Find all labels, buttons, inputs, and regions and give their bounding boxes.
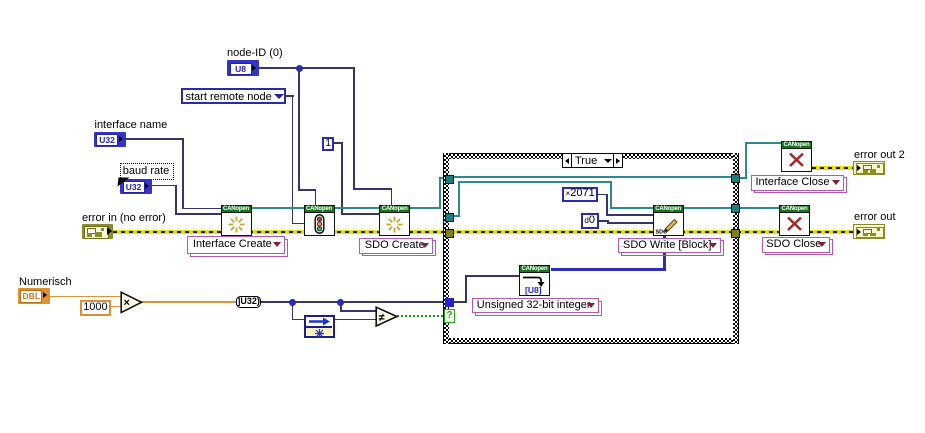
label interface name <box>95 120 168 131</box>
not-equal node <box>375 306 399 328</box>
wire teal into left tunnel 1 <box>439 177 446 179</box>
wire teal vertical up to left tunnel <box>439 177 441 208</box>
wire node-ID branch to traffic light vertical <box>298 67 300 190</box>
wire teal into Interface Close <box>745 142 782 144</box>
wire baud rate into Interface Create <box>175 213 221 215</box>
feedback node <box>304 315 335 338</box>
wire baud rate vertical <box>175 185 177 215</box>
op SDO Create VI U3 <box>379 205 410 236</box>
wire into feedback node <box>292 319 305 321</box>
control U32 baud rate <box>120 179 152 195</box>
wire teal SDO Create out <box>410 207 441 209</box>
case selector terminal ? <box>444 309 455 323</box>
wire node-ID branch to SDO Create vertical <box>353 67 355 189</box>
wire teal SDO Write out to right tunnel 2 <box>683 207 731 209</box>
wire node-ID into traffic light top <box>315 189 317 205</box>
wire x2071 vertical <box>606 194 608 216</box>
constant 1000 <box>80 300 112 316</box>
wire teal vertical up to Interface Close <box>745 142 747 179</box>
wire boolean dotted to case selector <box>397 315 445 317</box>
wire U8 array vertical up to SDO Write <box>663 235 666 271</box>
wire constant 1 out <box>334 142 343 144</box>
wire U8 array out of conversion VI thick <box>551 268 666 271</box>
wire teal right tunnel 2 to SDO Close <box>739 207 780 209</box>
tunnel left blue U32 <box>445 298 454 307</box>
label baud rate with selection marquee <box>120 163 174 180</box>
wire x2071 out <box>598 194 608 196</box>
wire teal from left tunnel 2 <box>452 215 460 217</box>
wire into not-equal top input <box>340 310 377 312</box>
wire node-ID horizontal <box>258 67 355 69</box>
indicator error out 2 <box>853 161 885 176</box>
svg-text:[U8]: [U8] <box>525 285 542 295</box>
node junction dot 1 <box>289 299 296 306</box>
wire branch to not-equal vertical <box>340 301 342 311</box>
wire interface name vertical <box>182 138 184 209</box>
wire error out 2 from Interface Close <box>812 166 853 170</box>
wire blue into conversion VI <box>465 275 519 277</box>
wire blue inside case vertical up <box>465 275 467 303</box>
wire node-ID into SDO Create top <box>391 188 393 205</box>
wire teal vertical down to SDO Write <box>610 181 612 208</box>
case structure border right <box>733 153 739 344</box>
wire blue main U32 run <box>261 301 446 303</box>
wire x2071 into SDO Write <box>606 214 653 216</box>
wire teal run B across case <box>458 181 612 183</box>
constant d0 <box>581 213 599 229</box>
wire teal vertical up inside case <box>458 181 460 217</box>
case structure border bottom <box>443 338 739 344</box>
svg-text:≠: ≠ <box>378 312 384 324</box>
svg-text:×: × <box>124 297 130 309</box>
wire interface name out <box>126 138 184 140</box>
label Interface Create <box>0 0 1 1</box>
label SDO Close <box>0 0 1 1</box>
label SDO Write [Block] <box>0 0 1 1</box>
indicator error out <box>853 224 885 239</box>
wire branch to feedback node vertical <box>292 301 294 319</box>
control error in cluster <box>82 224 113 240</box>
constant 1 <box>322 137 335 151</box>
op NMT traffic light VI U2 <box>304 205 335 236</box>
wire interface name into Interface Create <box>182 208 221 210</box>
case structure border top <box>443 153 739 159</box>
tunnel left teal 1 interface ref <box>445 175 454 184</box>
wire teal run A across case <box>452 176 732 178</box>
multiply node <box>120 291 144 314</box>
label error out <box>854 212 896 223</box>
op SDO Write Block VI U4 <box>653 205 684 236</box>
tunnel right olive error <box>731 229 740 238</box>
wire node-ID to SDO Create horizontal <box>353 188 392 190</box>
case structure border left <box>443 153 449 344</box>
label Numerisch <box>19 277 72 288</box>
control DBL Numerisch <box>18 288 50 304</box>
tunnel left olive error <box>445 229 454 238</box>
label error in (no error) <box>82 213 166 224</box>
label error out 2 <box>854 150 905 161</box>
wire teal Interface Create to SDO Create <box>251 207 380 209</box>
op Interface Create VI U1 <box>221 205 252 236</box>
wire orange DBL out <box>50 296 122 298</box>
label Interface Close <box>0 0 1 1</box>
wire blue inside case from tunnel <box>453 301 467 303</box>
wire d0 out <box>598 220 609 222</box>
wire baud rate out <box>152 185 177 187</box>
enum constant start remote node <box>181 88 286 104</box>
tunnel right teal 1 <box>731 174 740 183</box>
wire constant 1 into SDO Create <box>341 213 380 215</box>
control U32 interface name <box>94 132 126 148</box>
node junction dot 2 <box>337 299 344 306</box>
wire teal right tunnel 1 out <box>739 177 747 179</box>
label Unsigned 32-bit integer <box>0 0 1 1</box>
tunnel right teal 2 <box>731 204 740 213</box>
wire start remote node out <box>286 95 294 97</box>
conversion bubble U32 <box>236 296 261 308</box>
svg-text:SDO: SDO <box>655 229 668 235</box>
op conversion VI U5 Unsigned 32-bit integer <box>519 265 550 296</box>
wire orange multiply out <box>141 301 237 303</box>
op SDO Close VI U7 <box>779 205 810 236</box>
selection corner triangle on baud rate control <box>114 175 132 189</box>
wire node-ID to traffic light horizontal <box>298 189 316 191</box>
wire d0 vertical <box>607 220 609 224</box>
wire feedback node out to not-equal <box>335 319 378 321</box>
wire error in to error out main dashed error line <box>113 230 853 234</box>
op Interface Close VI U6 <box>781 141 812 172</box>
tunnel left teal 2 SDO ref <box>445 213 454 222</box>
constant x2071 <box>562 187 598 202</box>
control U8 node-ID <box>227 60 259 76</box>
wire start remote node vertical <box>292 95 294 224</box>
wire constant 1 vertical <box>341 142 343 215</box>
wire teal into SDO Write <box>610 207 653 209</box>
label node-ID (0) <box>227 48 283 59</box>
wire d0 into SDO Write <box>607 222 653 224</box>
node A junction dot on node-ID wire <box>296 65 303 72</box>
label SDO Create <box>0 0 1 1</box>
case selector label True <box>562 153 623 168</box>
wire orange 1000 out <box>111 306 122 308</box>
wire start remote node into traffic light <box>292 223 305 225</box>
